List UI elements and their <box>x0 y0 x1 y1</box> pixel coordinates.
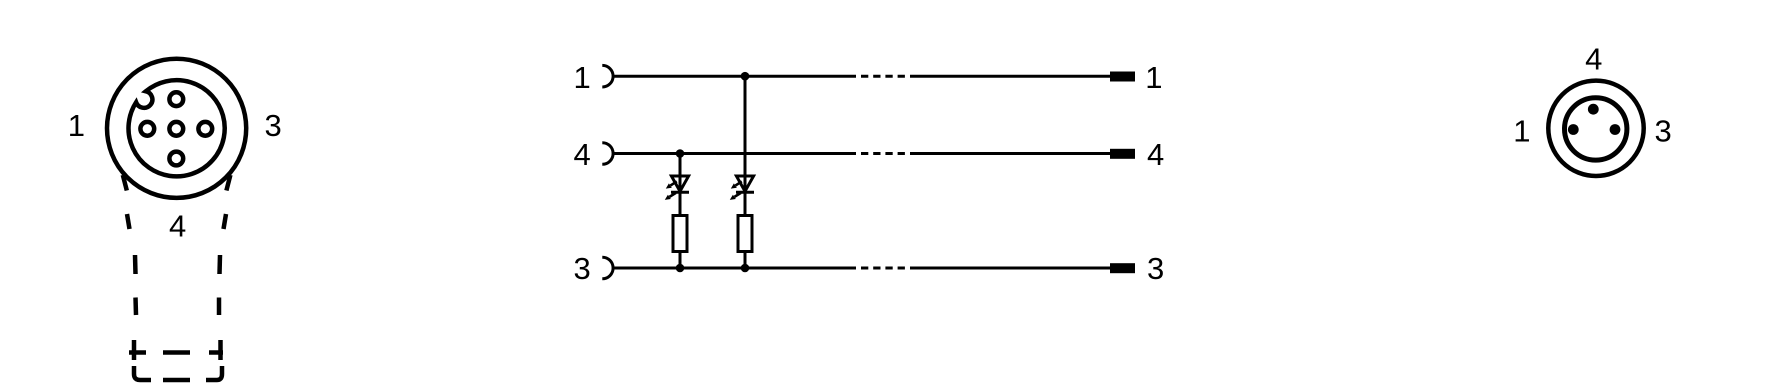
svg-text:3: 3 <box>1147 251 1164 286</box>
svg-text:1: 1 <box>68 108 85 143</box>
svg-text:3: 3 <box>574 251 591 286</box>
svg-text:4: 4 <box>169 208 186 243</box>
svg-text:4: 4 <box>1147 137 1164 172</box>
svg-text:4: 4 <box>574 137 591 172</box>
svg-text:1: 1 <box>1513 114 1530 149</box>
svg-text:4: 4 <box>1585 41 1602 76</box>
svg-text:1: 1 <box>1145 60 1162 95</box>
svg-text:3: 3 <box>265 108 282 143</box>
svg-text:3: 3 <box>1655 114 1672 149</box>
svg-text:1: 1 <box>574 60 591 95</box>
